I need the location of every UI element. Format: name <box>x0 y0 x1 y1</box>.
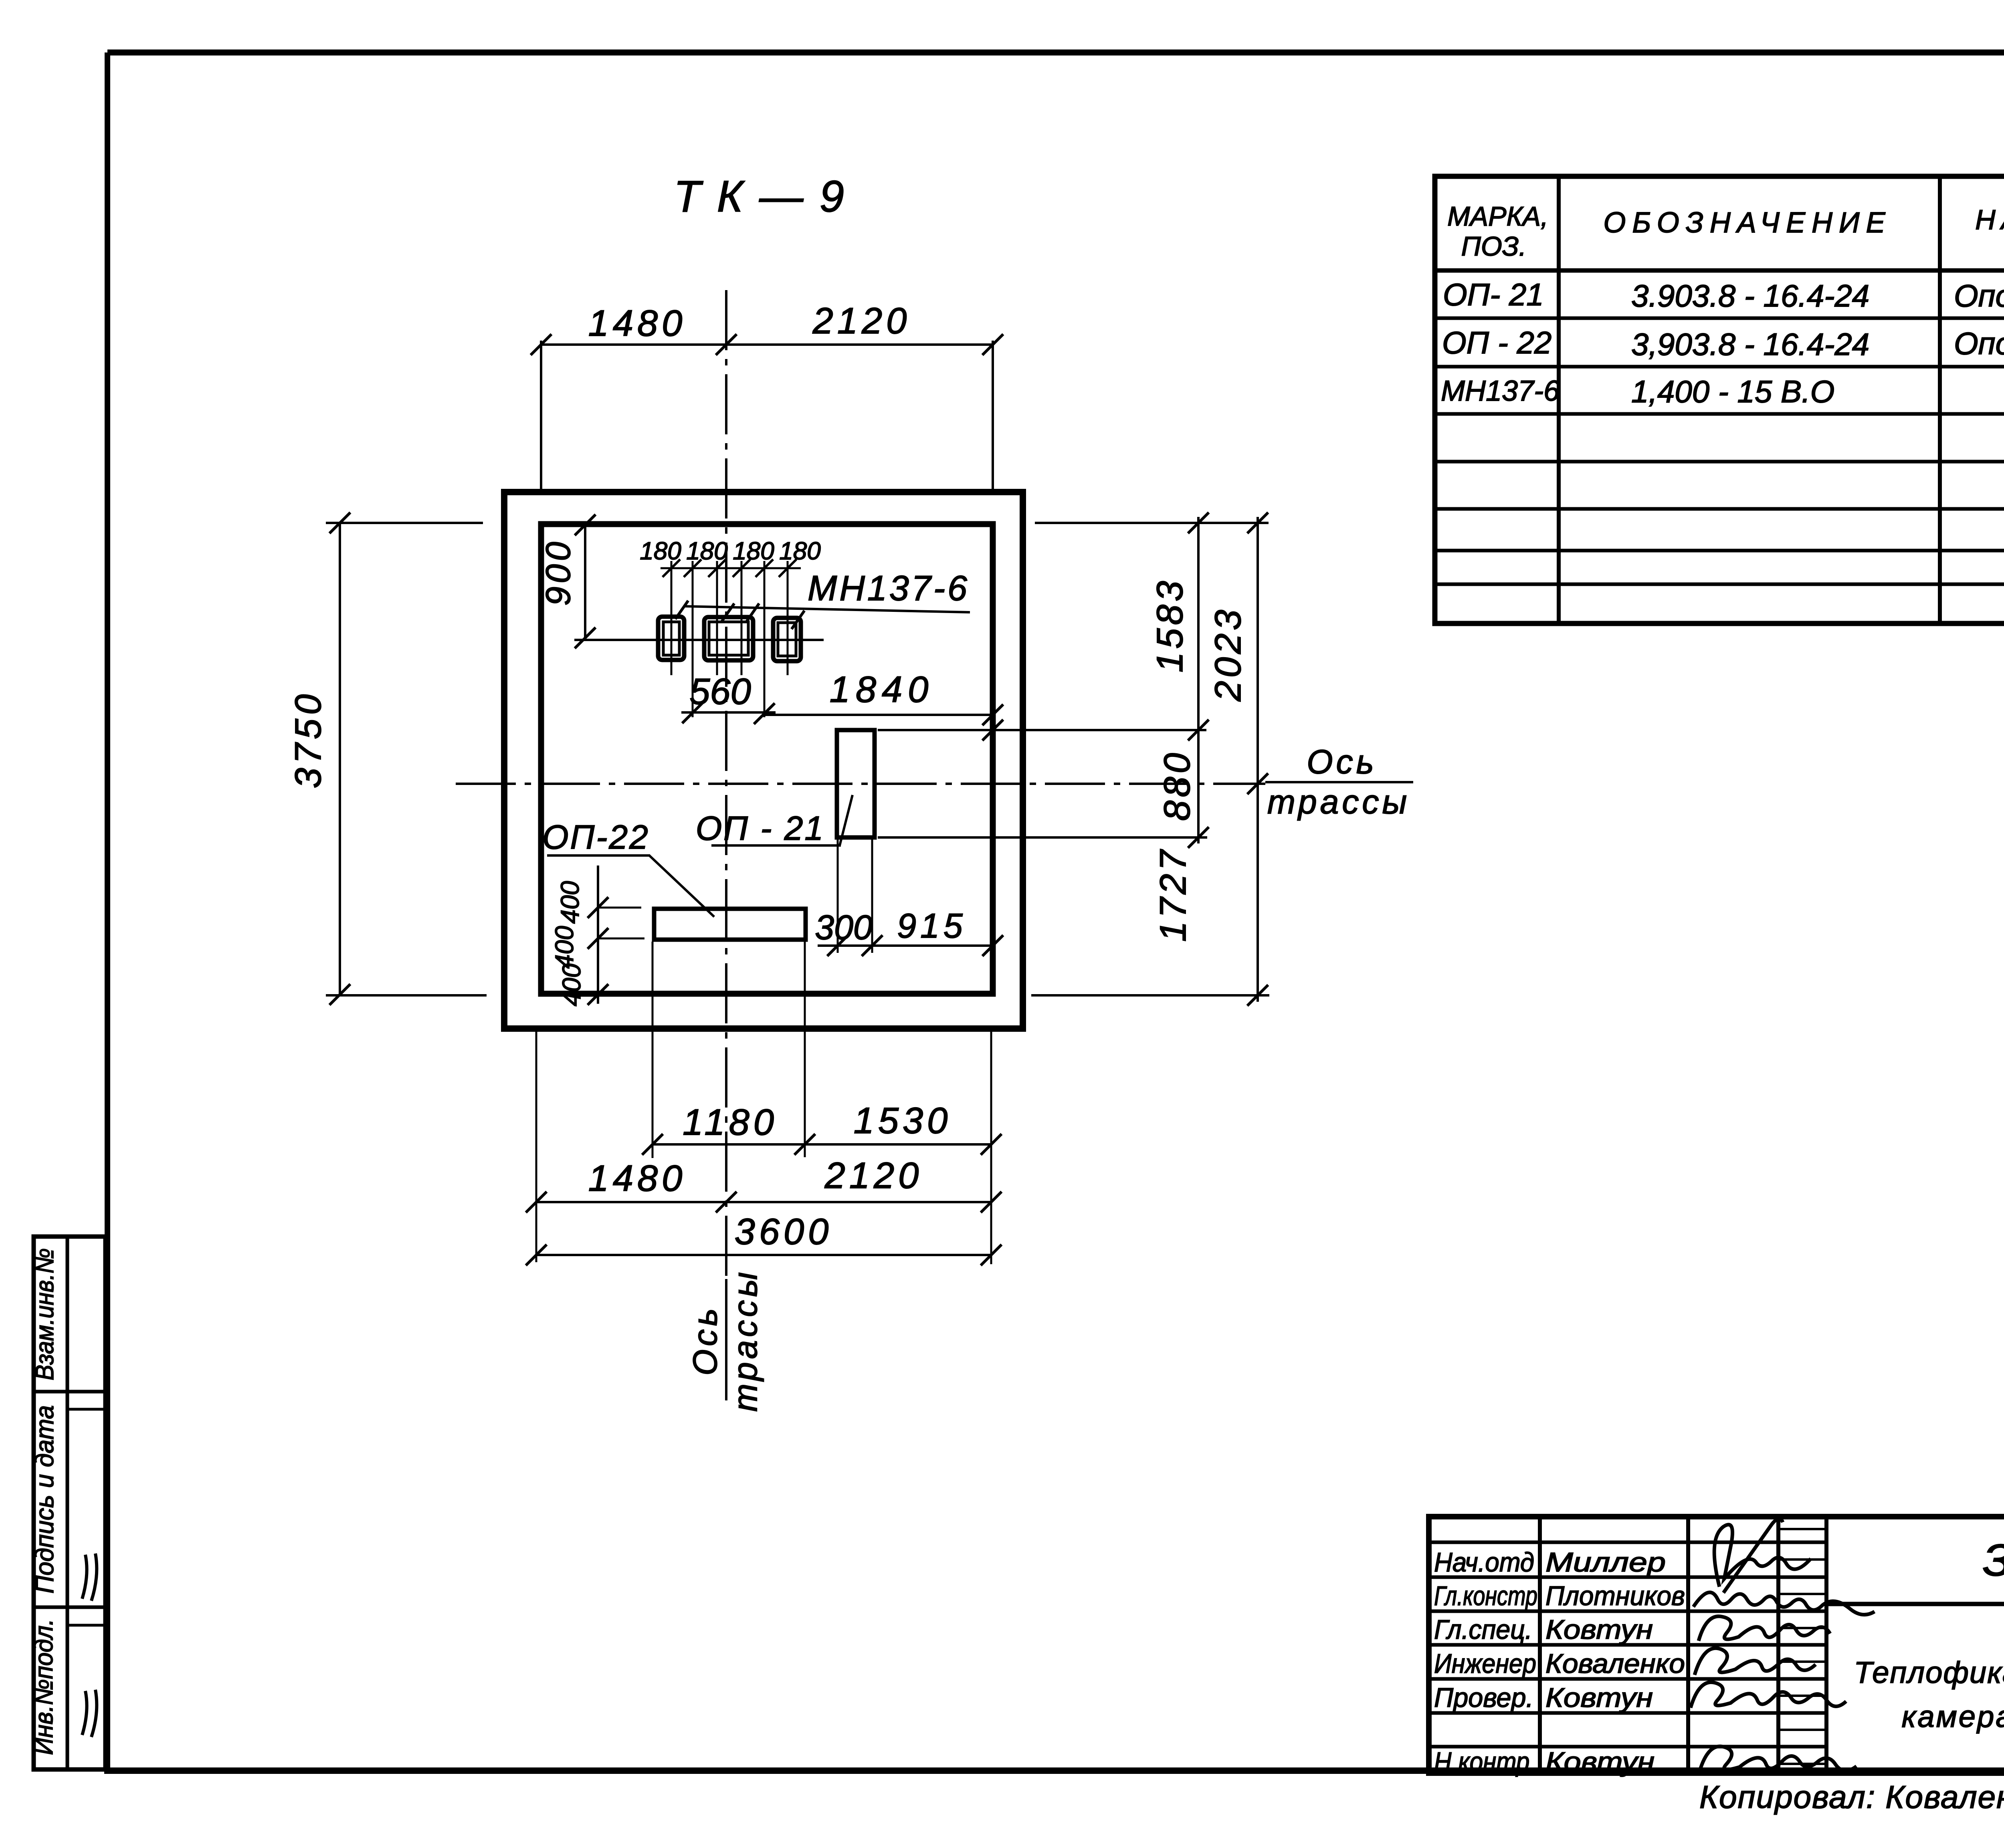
support ОП-22 rectangle <box>654 909 806 940</box>
svg-text:ОП- 21: ОП- 21 <box>1443 277 1544 312</box>
svg-text:трассы: трассы <box>726 1269 764 1412</box>
signature row line 6 <box>1429 1711 1826 1715</box>
svg-text:трассы: трассы <box>1267 783 1410 821</box>
svg-text:Инженер: Инженер <box>1434 1648 1536 1679</box>
specification table outer <box>1435 176 2004 623</box>
frame bottom border <box>104 1767 2004 1774</box>
supports axis line <box>574 639 824 641</box>
dim line 1480/2120 bottom <box>536 1201 991 1203</box>
svg-text:1480: 1480 <box>588 303 687 344</box>
table row line 6 <box>1435 549 2004 553</box>
table column divider 2 <box>1938 176 1942 623</box>
svg-text:НАИМЕНОВАНИЕ: НАИМЕНОВАНИЕ <box>1975 204 2004 235</box>
svg-text:Взам.инв.№: Взам.инв.№ <box>30 1248 59 1380</box>
left stamp divider 2b <box>67 1624 105 1627</box>
svg-text:900: 900 <box>539 539 578 606</box>
signature squiggle Плотников <box>1693 1592 1875 1615</box>
svg-text:Н.контр.: Н.контр. <box>1434 1747 1536 1777</box>
svg-text:180: 180 <box>733 537 774 565</box>
svg-text:3.903.8 - 16.4-9: 3.903.8 - 16.4-9 <box>1982 1535 2004 1585</box>
svg-text:2120: 2120 <box>824 1155 923 1196</box>
svg-text:ОП-22: ОП-22 <box>542 818 650 856</box>
frame top border <box>107 50 2004 56</box>
svg-text:Теплофикационная: Теплофикационная <box>1854 1656 2004 1690</box>
svg-text:180: 180 <box>779 537 820 565</box>
bottom ext ОП-22 right <box>804 942 806 1157</box>
ОП-22 label underline <box>547 854 650 857</box>
svg-text:МАРКА,: МАРКА, <box>1447 201 1548 232</box>
right axis label underline <box>1265 781 1413 783</box>
stamp handwritten mark 2 <box>82 1690 97 1737</box>
right ext line bottom <box>1031 994 1269 997</box>
frame left border <box>105 52 110 1771</box>
svg-text:Миллер: Миллер <box>1545 1547 1666 1578</box>
support МН137-6 #2+#3 (double) <box>704 617 753 660</box>
svg-text:3,903.8 - 16.4-24: 3,903.8 - 16.4-24 <box>1631 327 1869 362</box>
support extension line 6 <box>787 561 789 675</box>
signature row line 5 <box>1429 1677 1826 1681</box>
3750 extension bottom <box>326 994 487 997</box>
signature squiggle Ковтун 2 <box>1691 1682 1846 1708</box>
signature row line 3 <box>1429 1610 1826 1613</box>
right ext line ОП-21 top <box>878 729 1206 731</box>
table row line 2 <box>1435 365 2004 369</box>
svg-text:Плотников: Плотников <box>1545 1581 1685 1611</box>
chamber outer wall <box>504 492 1023 1029</box>
table row line 4 <box>1435 460 2004 464</box>
svg-text:2023: 2023 <box>1208 607 1248 702</box>
dim line 1180/1530 <box>653 1143 991 1146</box>
left dim line 3750 <box>339 523 341 995</box>
signature squiggle Миллер <box>1714 1525 1811 1587</box>
400 stub b <box>598 938 644 940</box>
title block column 2 <box>1686 1517 1690 1773</box>
svg-text:Инв.№подл.: Инв.№подл. <box>29 1619 58 1755</box>
svg-text:1,400 - 15 В.О: 1,400 - 15 В.О <box>1631 374 1834 409</box>
right ext line ОП-21 bottom <box>878 836 1207 839</box>
top dim extension right <box>992 341 994 490</box>
signature squiggle Ковтун 1 <box>1699 1616 1830 1641</box>
svg-text:180: 180 <box>686 537 727 565</box>
left stamp inner column divider <box>66 1237 69 1769</box>
signature row line 1 <box>1429 1541 1826 1544</box>
svg-text:400: 400 <box>557 963 586 1006</box>
svg-text:Ковтун: Ковтун <box>1545 1683 1653 1713</box>
left stamp divider 1 <box>34 1390 105 1394</box>
support extension line 1 <box>671 561 673 675</box>
svg-text:880: 880 <box>1157 750 1198 821</box>
table row line 3 <box>1435 412 2004 416</box>
support extension line 2 <box>692 561 694 717</box>
ОП-21 leader <box>840 795 853 845</box>
300 ext left <box>837 837 839 953</box>
title block column 1 <box>1538 1517 1542 1773</box>
right dim line 1583/880 <box>1197 517 1200 843</box>
top dim extension left <box>540 341 542 490</box>
title block outer <box>1429 1517 2004 1773</box>
svg-text:180: 180 <box>640 537 681 565</box>
left stamp outer box <box>34 1237 105 1769</box>
svg-text:1840: 1840 <box>830 669 934 710</box>
svg-text:ОП - 21: ОП - 21 <box>696 809 825 847</box>
ОП-22 leader <box>649 855 714 917</box>
table column divider 1 <box>1557 176 1561 623</box>
svg-text:ОП - 22: ОП - 22 <box>1442 325 1551 360</box>
svg-text:Провер.: Провер. <box>1434 1683 1533 1713</box>
svg-text:Опора: Опора <box>1954 278 2004 313</box>
МН137-6 leader line <box>683 606 970 612</box>
support МН137-6 #1 <box>658 617 684 660</box>
svg-text:1727: 1727 <box>1153 847 1194 942</box>
bottom ext inner-right <box>990 1031 992 1264</box>
support ОП-21 rectangle <box>837 730 875 837</box>
svg-text:3.903.8 - 16.4-24: 3.903.8 - 16.4-24 <box>1631 278 1869 313</box>
svg-text:1480: 1480 <box>588 1158 687 1199</box>
title block column 3 <box>1776 1517 1780 1773</box>
signature squiggle Ковтун 3 <box>1699 1746 1857 1772</box>
signature row line 2 <box>1429 1576 1826 1579</box>
title block column 4 <box>1824 1517 1828 1773</box>
svg-text:Ковтун: Ковтун <box>1545 1614 1653 1645</box>
chamber inner wall <box>541 524 993 994</box>
stamp handwritten mark <box>82 1553 97 1601</box>
dim line 900 <box>584 523 586 640</box>
bottom ext ОП-22 left <box>652 942 654 1158</box>
svg-text:1530: 1530 <box>854 1100 952 1141</box>
svg-text:Гл.спец.: Гл.спец. <box>1434 1614 1532 1645</box>
3750 extension top <box>326 522 483 524</box>
svg-text:1583: 1583 <box>1149 578 1190 673</box>
dim line 3600 <box>536 1254 991 1256</box>
dim line 300/915 <box>818 944 993 947</box>
table row line 5 <box>1435 507 2004 511</box>
dim line 560 <box>681 711 776 714</box>
support extension line 5 <box>764 561 766 717</box>
dimension line 180x4 <box>661 567 801 569</box>
left stamp divider 1b <box>67 1408 105 1411</box>
МН137-6 leader ticks <box>675 601 688 619</box>
signature row line 7 <box>1429 1745 1826 1749</box>
vertical trench centerline <box>725 290 727 1279</box>
svg-text:камера ТК-9: камера ТК-9 <box>1902 1700 2004 1734</box>
svg-text:Подпись и дата: Подпись и дата <box>30 1405 59 1594</box>
svg-text:3750: 3750 <box>288 690 329 789</box>
1840 right ext stub <box>992 715 994 725</box>
svg-text:Т К — 9: Т К — 9 <box>674 172 846 221</box>
support extension line 3 <box>716 561 718 675</box>
svg-text:ПОЗ.: ПОЗ. <box>1461 231 1527 262</box>
dim line 1840 <box>764 714 993 716</box>
table row line 7 <box>1435 583 2004 586</box>
svg-text:Копировал: Коваленко: Копировал: Коваленко <box>1699 1779 2004 1815</box>
table header bottom line <box>1435 268 2004 273</box>
left stamp divider 2 <box>34 1606 105 1609</box>
400 stub c <box>570 994 630 996</box>
svg-text:400: 400 <box>556 881 584 924</box>
svg-text:Ось: Ось <box>686 1305 724 1376</box>
svg-text:560: 560 <box>689 671 751 712</box>
svg-text:МН137-6: МН137-6 <box>1441 375 1560 407</box>
svg-text:МН137-6: МН137-6 <box>808 568 970 608</box>
svg-text:ОБОЗНАЧЕНИЕ: ОБОЗНАЧЕНИЕ <box>1603 207 1891 239</box>
ОП-21 label underline <box>711 844 841 847</box>
svg-text:Гл.констр: Гл.констр <box>1434 1581 1537 1611</box>
top dimension line <box>541 343 993 346</box>
svg-text:Ось: Ось <box>1307 743 1377 781</box>
svg-text:Коваленко: Коваленко <box>1545 1648 1685 1679</box>
doc number cell bottom line <box>1826 1602 2004 1606</box>
signature row line 4 <box>1429 1643 1826 1647</box>
horizontal trench centerline <box>456 783 1265 785</box>
svg-text:Опора: Опора <box>1954 326 2004 361</box>
svg-text:Нач.отд: Нач.отд <box>1434 1547 1534 1578</box>
svg-text:400: 400 <box>550 926 579 968</box>
400 stub a <box>598 907 641 909</box>
svg-text:3600: 3600 <box>735 1211 833 1252</box>
svg-text:915: 915 <box>897 907 967 945</box>
bottom axis label divider line <box>725 1279 727 1400</box>
dim line 400s <box>597 865 599 1004</box>
table row line 1 <box>1435 317 2004 320</box>
svg-text:300: 300 <box>815 908 873 947</box>
support extension line 4 <box>741 561 743 675</box>
300 ext right <box>871 837 873 953</box>
svg-text:Ковтун: Ковтун <box>1545 1747 1655 1777</box>
right dim line 2023/1727 <box>1257 517 1259 1002</box>
signature squiggle Коваленко <box>1695 1648 1816 1675</box>
right ext line top <box>1035 522 1269 524</box>
bottom ext inner-left <box>535 1031 537 1262</box>
date column extra row lines <box>1778 1528 1826 1530</box>
svg-text:2120: 2120 <box>812 301 911 341</box>
svg-text:1180: 1180 <box>683 1102 778 1143</box>
support МН137-6 #4 <box>773 618 801 661</box>
